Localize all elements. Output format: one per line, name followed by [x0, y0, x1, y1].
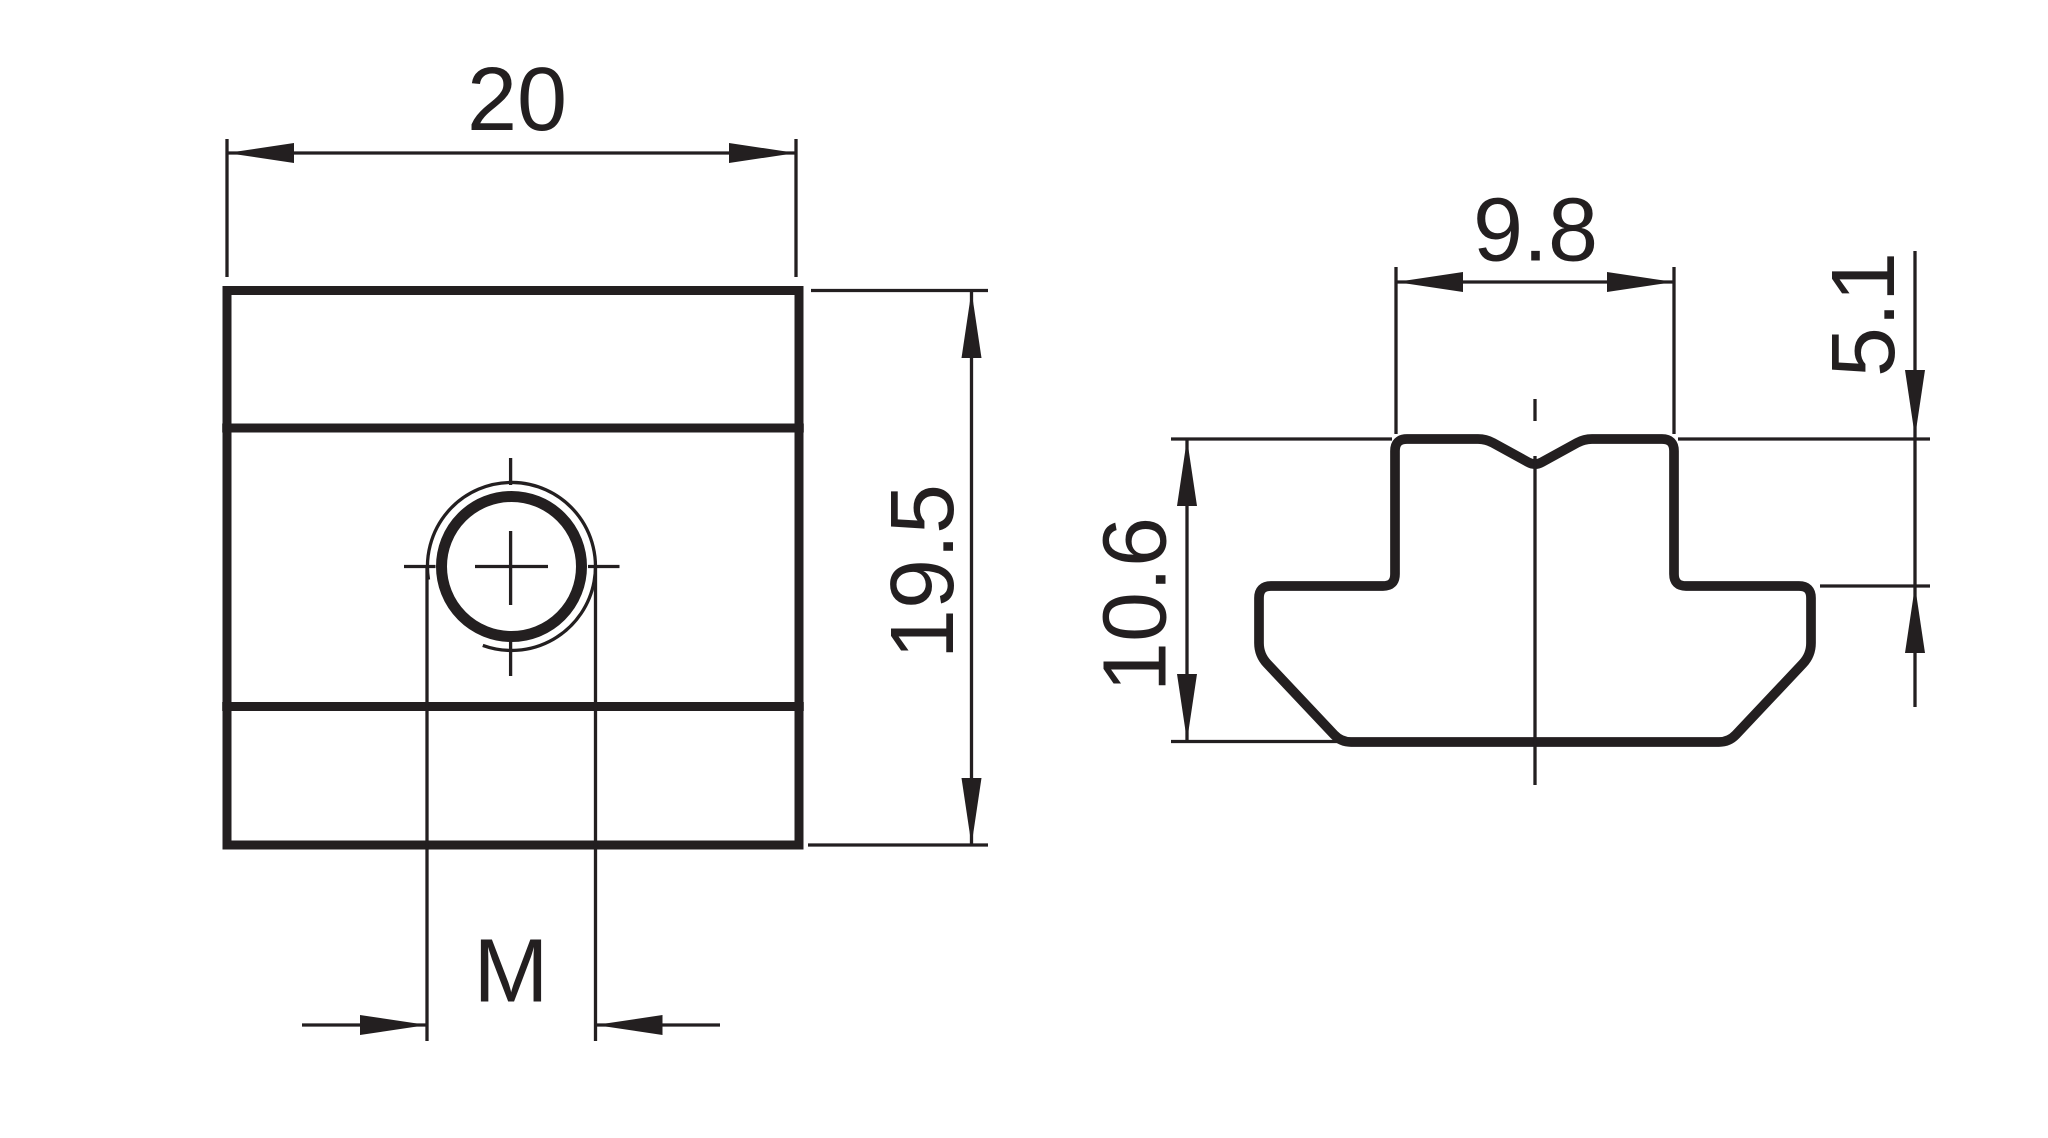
arrowhead 5.1 bottom — [1905, 586, 1925, 653]
dimension 5.1 line — [1913, 251, 1916, 707]
dimension 9.8 extension line right — [1672, 267, 1675, 434]
svg-text:20: 20 — [467, 50, 567, 150]
dimension M extension line right — [594, 567, 597, 1041]
profile top edge extension line left — [1171, 437, 1392, 440]
arrowhead 20 left — [227, 143, 294, 163]
arrowhead M left — [360, 1015, 427, 1035]
top view upper groove edge line — [222, 424, 804, 433]
dimension 20 extension line left — [225, 139, 228, 277]
arrowhead 10.6 top — [1177, 439, 1197, 506]
dimension 19.5 extension line top — [811, 289, 988, 292]
svg-text:5.1: 5.1 — [1814, 252, 1914, 377]
svg-text:9.8: 9.8 — [1473, 181, 1598, 281]
hole center line horizontal — [404, 565, 620, 568]
arrowhead 10.6 bottom — [1177, 674, 1197, 741]
thread hole circle — [442, 497, 582, 637]
profile shoulder extension line — [1820, 584, 1930, 587]
dimension 20 line — [227, 151, 796, 154]
profile bottom extension line — [1171, 740, 1338, 743]
arrowhead 5.1 top — [1905, 370, 1925, 437]
side profile outline — [1259, 439, 1811, 742]
profile center line dash — [1533, 399, 1536, 421]
dimension M extension line left — [425, 567, 428, 1041]
arrowhead 9.8 left — [1396, 272, 1463, 292]
thread outer arc — [427, 482, 595, 650]
dimension 10.6 line — [1185, 439, 1188, 741]
arrowhead M right — [596, 1015, 663, 1035]
dimension M line left segment — [302, 1023, 427, 1026]
top view lower groove edge line — [222, 702, 804, 711]
hole center line vertical — [509, 458, 512, 676]
svg-text:M: M — [474, 922, 549, 1022]
svg-text:10.6: 10.6 — [1086, 517, 1186, 692]
arrowhead 9.8 right — [1607, 272, 1674, 292]
top view outline (nut body square) — [227, 291, 799, 846]
arrowhead 20 right — [729, 143, 796, 163]
arrowhead 19.5 bottom — [962, 778, 982, 845]
profile center line — [1533, 456, 1536, 785]
dimension 9.8 extension line left — [1394, 267, 1397, 434]
dimension 19.5 extension line bottom — [808, 843, 988, 846]
dimension 9.8 line — [1396, 280, 1674, 283]
dimension 19.5 line — [970, 291, 973, 846]
svg-text:19.5: 19.5 — [873, 484, 973, 659]
dimension M line right segment — [596, 1023, 721, 1026]
profile top edge extension line right — [1678, 437, 1930, 440]
arrowhead 19.5 top — [962, 291, 982, 358]
dimension 20 extension line right — [794, 139, 797, 277]
